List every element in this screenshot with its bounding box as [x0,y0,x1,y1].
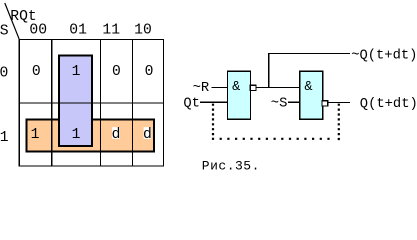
svg-text:Qt: Qt [183,96,200,111]
svg-text:1: 1 [72,127,81,143]
svg-text:10: 10 [134,22,152,38]
svg-text:0: 0 [0,65,8,81]
svg-text:&: & [304,80,312,95]
svg-text:~R: ~R [193,81,210,96]
svg-text:0: 0 [32,64,41,80]
svg-text:S: S [0,24,9,40]
svg-text:11: 11 [102,22,120,38]
svg-text:~Q(t+dt): ~Q(t+dt) [351,47,417,63]
svg-text:1: 1 [31,127,40,143]
svg-text:01: 01 [69,22,87,38]
svg-text:&: & [232,80,240,95]
svg-text:Рис.35.: Рис.35. [202,159,260,172]
svg-text:1: 1 [0,130,9,146]
svg-text:Q(t+dt): Q(t+dt) [360,96,417,112]
svg-text:0: 0 [145,64,154,80]
svg-text:00: 00 [29,22,47,38]
svg-text:~S: ~S [271,96,288,111]
svg-text:0: 0 [112,64,121,80]
svg-text:d: d [143,127,152,143]
svg-text:1: 1 [72,64,81,80]
svg-text:d: d [112,127,121,143]
